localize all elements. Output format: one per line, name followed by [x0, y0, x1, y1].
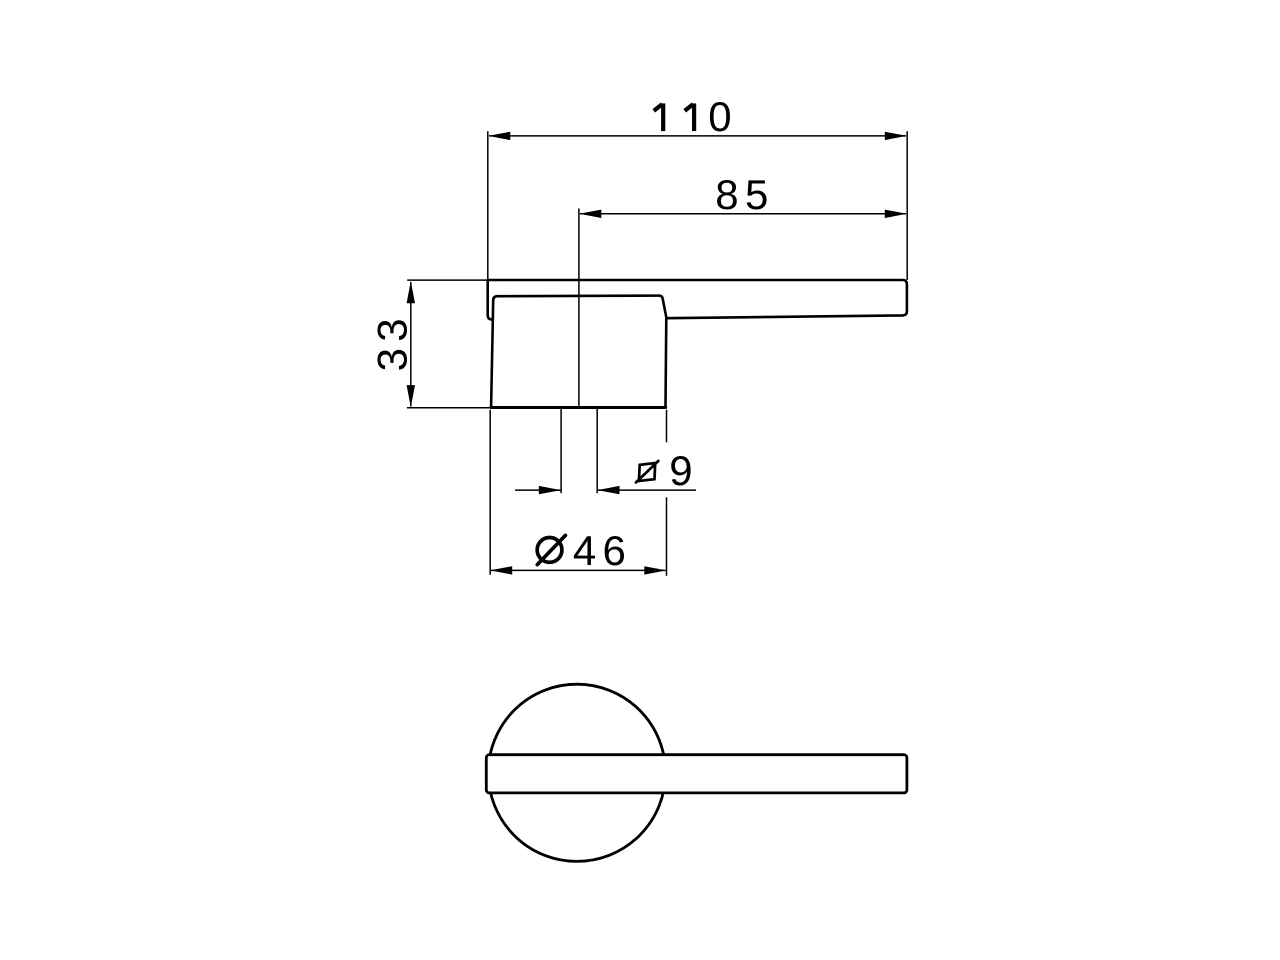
svg-text:9: 9 — [669, 447, 699, 494]
svg-text:85: 85 — [715, 171, 774, 218]
svg-text:46: 46 — [573, 527, 632, 574]
svg-text:33: 33 — [368, 312, 415, 371]
svg-text:0: 0 — [708, 93, 731, 140]
